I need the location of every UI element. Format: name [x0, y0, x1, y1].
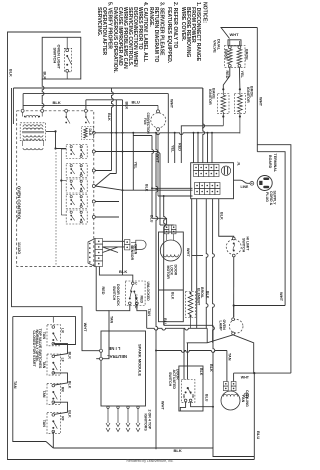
svg-text:FAN: FAN [143, 118, 147, 125]
junction WHT/BLU [253, 372, 255, 374]
wire RED bake valve to ignitor [223, 67, 230, 89]
svg-text:RF: RF [61, 416, 65, 421]
relay contacts top right [65, 116, 67, 118]
svg-text:TAN: TAN [42, 361, 46, 369]
svg-text:IGNITOR: IGNITOR [208, 89, 212, 105]
oven control relay K4 [66, 195, 87, 209]
rail A drop to board [203, 88, 205, 163]
svg-text:TAN: TAN [42, 390, 46, 398]
wire from K4 terminal [95, 201, 119, 203]
transformer secondary row [23, 148, 43, 150]
svg-text:BLK: BLK [43, 72, 47, 80]
wire board to broil element [191, 199, 193, 292]
svg-text:Rendered by LeadVenture, Inc.: Rendered by LeadVenture, Inc. [127, 459, 174, 463]
wire lower block feeds [152, 187, 193, 189]
wire fan right feed [233, 373, 235, 381]
svg-text:TAN: TAN [13, 381, 17, 389]
svg-text:BLK: BLK [107, 113, 111, 121]
svg-text:FAN: FAN [241, 395, 245, 403]
wire WHT inner loop [257, 152, 285, 306]
wire DAS feed [187, 343, 189, 380]
svg-text:FEATURES EQUIPPED.: FEATURES EQUIPPED. [166, 7, 172, 64]
svg-text:RR: RR [61, 387, 65, 392]
door latch enclosure box [159, 232, 184, 322]
svg-text:WHT: WHT [186, 248, 190, 257]
svg-text:11/12G: 11/12G [17, 242, 21, 254]
wire bus C drop 2 [122, 100, 124, 275]
oven lamp [229, 320, 243, 334]
dual valve assembly [228, 40, 241, 46]
svg-text:TAN: TAN [110, 316, 114, 324]
svg-text:RED: RED [101, 287, 105, 295]
wire WHT outer loop [257, 145, 291, 373]
svg-text:LR: LR [61, 328, 65, 333]
wires oven lamp bottom split [207, 335, 233, 343]
svg-text:TAN: TAN [147, 309, 151, 317]
oven control relay K3 [66, 179, 87, 193]
oven sensor connector [125, 240, 130, 245]
svg-text:NOTICE:: NOTICE: [202, 2, 208, 23]
svg-text:OVEN CONTROL: OVEN CONTROL [16, 186, 21, 221]
wire bus y342 [187, 342, 208, 344]
wire P1a join [96, 310, 109, 312]
cooling fan motor [221, 391, 240, 410]
svg-text:NO: NO [182, 395, 186, 399]
top valve switch RR [47, 383, 61, 404]
terminal board lower connector [195, 183, 200, 189]
spark output 2 arrow [117, 406, 119, 408]
svg-text:WHT: WHT [170, 99, 175, 109]
svg-text:BLU: BLU [149, 215, 153, 223]
oven control relay K1 [66, 145, 87, 159]
svg-text:NC: NC [191, 395, 195, 399]
wire vertical x111 [112, 88, 114, 171]
wire P1 down b [99, 267, 122, 276]
wires das bottom [180, 402, 185, 411]
spark output 3 arrow [127, 406, 129, 408]
svg-text:BLK: BLK [205, 291, 209, 299]
svg-text:BLK: BLK [145, 184, 149, 192]
wire fan to lower block [158, 195, 193, 197]
svg-text:SUPPLY: SUPPLY [272, 191, 276, 206]
wire RF out [52, 432, 54, 449]
svg-text:L I NE: L I NE [108, 346, 120, 351]
broil ignitor [239, 88, 241, 90]
svg-text:PLUG: PLUG [265, 192, 269, 202]
left TAN wire [13, 317, 46, 442]
wire DLS C feed [123, 275, 133, 282]
top valve switch LR [47, 325, 61, 346]
svg-text:WHT: WHT [83, 323, 87, 332]
svg-text:LINE: LINE [241, 185, 249, 189]
hi limit switch [226, 240, 241, 255]
wire main mid bus Q [92, 131, 95, 134]
bottom BLK bus [46, 442, 53, 449]
svg-text:BLK: BLK [53, 100, 61, 105]
svg-text:RED: RED [225, 71, 229, 79]
broil element [186, 292, 196, 318]
terminal board top feeds [193, 133, 195, 163]
door actuated switch enclosure [179, 366, 203, 411]
wire WHT oven lamp branch [234, 306, 285, 318]
wire DLS left to spark line [100, 305, 130, 359]
wire P1 pin2 diag [103, 247, 119, 253]
oven control terminals top [21, 109, 24, 112]
wire link 2 BLK [53, 373, 67, 385]
svg-text:ELEMENT: ELEMENT [196, 288, 200, 306]
wire bus A drop right [202, 88, 204, 129]
bundle vertical 2 WHT long [156, 133, 158, 450]
wires door lock motor feeds [152, 218, 167, 225]
oven control relay K5 [66, 210, 87, 224]
wire N WHT right rail top [256, 28, 258, 152]
oven control relay coil [24, 116, 26, 118]
svg-text:MOTOR: MOTOR [166, 266, 170, 280]
oven control right terminals [92, 150, 95, 153]
svg-text:IGNITOR: IGNITOR [246, 87, 250, 103]
svg-text:BROIL: BROIL [245, 49, 249, 61]
wire board down 3 (hops) [206, 199, 208, 329]
svg-text:DLB: DLB [88, 129, 92, 137]
wire from K3 terminal upper branch [95, 174, 116, 187]
wire bus Q drop YEL [174, 133, 176, 163]
wire bus y328 [147, 328, 208, 330]
top valve switch RF [47, 413, 61, 434]
wire YEL broil valve to ignitor [238, 67, 241, 89]
svg-text:WHT: WHT [279, 292, 284, 302]
oven light switch box [42, 37, 81, 79]
svg-text:BLK: BLK [68, 410, 72, 418]
oven control internal bus with taps [46, 131, 66, 148]
wire line feed from rail [12, 88, 100, 351]
svg-text:BLK: BLK [199, 368, 203, 376]
svg-text:YEL: YEL [240, 71, 244, 79]
short bus y255 [192, 255, 203, 257]
svg-text:WHT: WHT [230, 32, 240, 37]
supply cord wire [234, 180, 251, 183]
wire bus B drop to convection/board [167, 94, 169, 163]
svg-text:BLU: BLU [204, 394, 208, 402]
bundle vertical 1 [152, 136, 154, 219]
wire TAN to cooling fan [156, 351, 227, 353]
oven control relay K2 [66, 164, 87, 178]
svg-text:BLK: BLK [124, 102, 128, 110]
svg-text:TAN: TAN [42, 332, 46, 340]
wire BLU mid horizontal [164, 324, 213, 326]
wire bake ignitor return RED [181, 126, 223, 163]
top valve switch LF [47, 354, 61, 375]
wire L1 BLK left rail [8, 32, 255, 460]
door actuated switch [181, 380, 195, 403]
svg-text:WIRE COVER.: WIRE COVER. [180, 7, 186, 42]
svg-text:CLOSED FOR START: CLOSED FOR START [32, 330, 36, 367]
svg-text:BLK: BLK [68, 381, 72, 389]
svg-text:SENSOR: SENSOR [130, 245, 134, 261]
svg-text:BLK: BLK [9, 69, 13, 77]
spark output 4 arrow [137, 406, 139, 408]
wire BLK bus A [13, 87, 202, 89]
wire bus C [86, 99, 123, 101]
svg-text:BLK: BLK [119, 269, 127, 274]
svg-text:LAMP: LAMP [218, 321, 222, 332]
wire WHT lower loop [234, 372, 291, 374]
svg-text:BLU: BLU [256, 431, 261, 439]
wire link 1 BLK [53, 344, 67, 356]
wire spark module WHT drop [155, 447, 157, 449]
oven control internal bus [60, 149, 62, 215]
wire from K1 terminal WHT [95, 152, 160, 226]
oven light switch symbol [64, 48, 71, 72]
wire BLK board to hi-limit [219, 199, 234, 238]
wire hi-limit to lamp node [233, 257, 235, 317]
wire WHT to dual valve [221, 28, 257, 39]
svg-text:VALVE: VALVE [213, 40, 218, 53]
supply plug [257, 176, 272, 191]
wire board down 2 [196, 199, 198, 329]
svg-text:SWITCH: SWITCH [53, 48, 58, 64]
bake ignitor [222, 88, 224, 90]
svg-text:BAKE: BAKE [224, 49, 228, 60]
svg-text:LF: LF [61, 358, 65, 362]
wire board down 4 (hops) [213, 199, 215, 343]
spark module box [101, 331, 146, 406]
terminal board upper connector [194, 165, 199, 171]
wire feed LR [52, 317, 54, 323]
wire P1 pin3 diag [103, 247, 119, 253]
svg-text:NEUTRAL: NEUTRAL [107, 354, 127, 359]
svg-text:RED: RED [178, 143, 182, 151]
svg-text:YEL: YEL [133, 162, 137, 170]
svg-text:SWITCH: SWITCH [112, 286, 116, 301]
wire bus C drop 1 [115, 100, 117, 174]
svg-text:BLU: BLU [163, 318, 167, 326]
wire x213 drop [213, 325, 215, 448]
svg-text:BLK: BLK [171, 292, 175, 300]
svg-text:BLK: BLK [68, 352, 72, 360]
door lock motor connectors [164, 225, 169, 229]
bundle vertical 4 BLU [164, 196, 166, 325]
wire from K3 terminal lower branch [95, 186, 122, 190]
svg-text:TERMINAL: TERMINAL [273, 154, 277, 173]
svg-text:TAN: TAN [227, 353, 231, 361]
svg-text:RED: RED [139, 296, 143, 304]
svg-text:WHT: WHT [259, 97, 264, 107]
svg-text:BLK: BLK [209, 364, 213, 372]
svg-text:BLK: BLK [219, 212, 223, 220]
door lock switch dashed box [125, 281, 145, 306]
svg-text:BOARD: BOARD [268, 155, 272, 169]
svg-text:YEL: YEL [170, 145, 174, 153]
oven control bottom connector P1 [88, 239, 95, 267]
terminal board box [191, 163, 234, 199]
svg-text:BLK: BLK [174, 448, 182, 453]
svg-text:SWITCH: SWITCH [242, 238, 246, 253]
wire link 3 BLK [53, 402, 67, 414]
wire vertical x133 YEL [132, 133, 134, 190]
wire oven light to control (with hops) [42, 79, 44, 109]
oven sensor probe [136, 240, 146, 249]
svg-text:UNLOCKED: UNLOCKED [146, 282, 150, 302]
wire BLU branch to convection fan [22, 94, 24, 110]
relay DLB coil [82, 127, 94, 140]
cooling fan connectors [223, 382, 228, 387]
svg-text:CORD &: CORD & [269, 191, 273, 206]
spark module terminals [100, 349, 103, 352]
svg-text:TAN: TAN [42, 420, 46, 428]
oven control internal dashed partition [55, 152, 57, 266]
svg-text:.N.: .N. [237, 162, 241, 166]
spark output 1 arrow [107, 406, 109, 408]
oven control dashed box [17, 111, 94, 267]
wire from K2 terminal [95, 170, 111, 172]
svg-text:SPARK MODULE: SPARK MODULE [138, 344, 143, 376]
svg-text:SWITCH: SWITCH [168, 372, 172, 387]
convection fan motor [151, 113, 166, 128]
svg-text:IGNITORS: IGNITORS [143, 414, 147, 432]
door lock motor [160, 240, 181, 261]
wire neutral feed [96, 358, 99, 360]
svg-text:SERVICING.: SERVICING. [96, 7, 102, 37]
terminal board neutral lug [221, 166, 230, 175]
svg-text:BLU: BLU [132, 100, 140, 105]
svg-text:WHT: WHT [241, 375, 250, 379]
wire from K5 terminal [95, 216, 119, 218]
wire DLS right TAN [137, 305, 147, 329]
wires sensor feeds [103, 240, 125, 242]
cooling fan ground lug [244, 393, 249, 398]
wire P1 down a [95, 267, 97, 311]
top valve switches enclosure [13, 317, 76, 345]
transformer T1 [20, 123, 46, 141]
svg-text:WHT: WHT [161, 401, 165, 410]
wire WHT bus B [23, 93, 168, 95]
